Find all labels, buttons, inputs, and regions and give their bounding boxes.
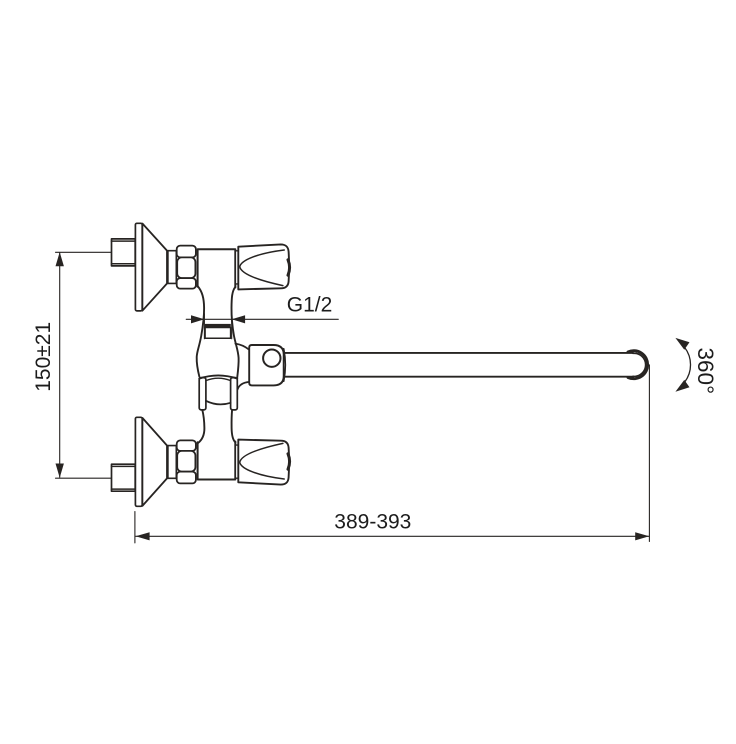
dim G1/2 dimension line: [186, 318, 338, 320]
spout tube fill: [284, 353, 645, 377]
sleeve left bar: [199, 378, 206, 410]
upper inlet pipe inner line top: [112, 240, 136, 242]
sleeve bottom arc: [206, 401, 231, 405]
riser right profile (upper taper to sleeve): [231, 287, 238, 380]
lower valve body fill: [198, 435, 236, 480]
sleeve inner top arc: [206, 378, 231, 380]
dim 150±21 arrow down: [56, 464, 64, 478]
swivel arc arrow bottom: [675, 380, 689, 392]
sleeve mask: [199, 375, 237, 409]
upper escutcheon cone: [142, 224, 167, 311]
dim G1/2 arrow left: [191, 315, 204, 323]
spout tube bottom line: [284, 376, 633, 378]
spout end inner cap arc: [633, 353, 646, 376]
lower hex nut middle facet band: [177, 451, 195, 472]
dim 389-393 arrow right: [635, 532, 649, 540]
G1/2 neck thread band: [205, 324, 231, 328]
lower handle cap bump: [288, 454, 290, 469]
upper hex nut top facet band: [177, 246, 196, 258]
lower escutcheon plate: [135, 417, 142, 506]
spout holder body: [249, 345, 284, 385]
spout end outer cap arc: [628, 351, 648, 379]
swivel arc arrow top: [675, 338, 689, 350]
svg-text:360°: 360°: [693, 348, 718, 395]
fillet riser to spout-holder bottom: [238, 382, 250, 390]
dim 150±21 arrow up: [56, 252, 64, 266]
lower hex nut bottom facet band: [177, 472, 196, 484]
G1/2 neck rect: [205, 328, 231, 339]
upper handle cap bump: [288, 260, 290, 275]
lower handle collar: [235, 445, 238, 478]
riser left profile (upper taper to sleeve): [197, 286, 204, 377]
lower inlet pipe: [112, 464, 136, 491]
spout holder screw circle: [263, 350, 280, 367]
lower washer ring: [168, 446, 176, 479]
spout tube top line: [284, 352, 633, 354]
upper valve body outline: [198, 249, 236, 287]
upper hex nut bottom facet band: [177, 278, 196, 289]
swivel 360 arc: [685, 347, 691, 382]
upper handle knob: [238, 244, 289, 289]
dim 150±21 extension line bottom: [56, 477, 112, 479]
dim G1/2 extension line left: [203, 314, 205, 339]
dim 150±21 extension line top: [56, 251, 112, 253]
upper handle cone curve: [240, 250, 285, 286]
dim 389-393 extension line left: [134, 512, 136, 543]
dim 389-393 extension line right: [648, 365, 650, 542]
dim G1/2 arrow right: [232, 315, 245, 323]
upper inlet pipe: [112, 239, 136, 266]
lower valve body outline: [198, 442, 236, 480]
dim 389-393 arrow left: [136, 532, 150, 540]
svg-text:389-393: 389-393: [334, 510, 411, 533]
lower handle cone curve: [240, 443, 285, 479]
riser below sleeve left profile: [198, 410, 205, 444]
upper escutcheon plate: [135, 223, 142, 311]
upper valve body fill: [198, 249, 236, 294]
dim 389-393 dimension line: [136, 535, 650, 537]
lower inlet pipe inner line top: [112, 465, 136, 467]
lower inlet pipe inner line bottom: [112, 488, 136, 490]
upper hex nut middle facet band: [177, 257, 195, 278]
upper washer ring: [168, 251, 176, 284]
fillet riser to spout-holder top: [235, 344, 249, 350]
dim 150±21 vertical line: [59, 253, 61, 478]
upper inlet pipe inner line bottom: [112, 263, 136, 265]
sleeve right bar: [231, 378, 238, 410]
dim G1/2 extension line right: [231, 314, 233, 339]
upper handle collar: [235, 251, 238, 284]
lower hex nut top facet band: [177, 440, 196, 451]
lower handle knob: [238, 440, 289, 485]
lower escutcheon cone: [142, 418, 167, 506]
svg-text:G1/2: G1/2: [287, 294, 333, 317]
svg-text:150±21: 150±21: [32, 322, 55, 392]
spout holder end bulge: [284, 349, 286, 381]
sleeve outer top arc: [199, 375, 237, 378]
riser below sleeve right profile: [232, 410, 236, 443]
